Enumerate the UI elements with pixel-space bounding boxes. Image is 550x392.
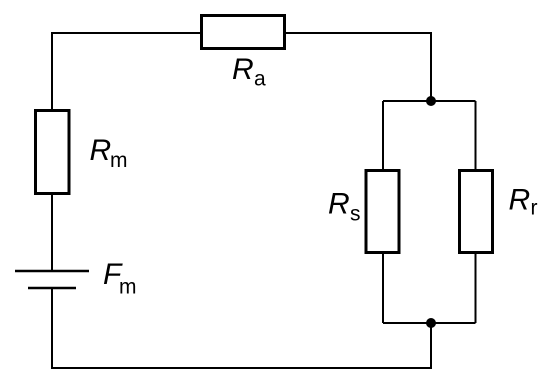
node top junction — [426, 96, 436, 106]
node bottom junction — [426, 318, 436, 328]
wire Rs bottom lead — [382, 253, 384, 323]
svg-text:R: R — [328, 188, 350, 221]
svg-text:a: a — [254, 68, 266, 91]
svg-text:R: R — [90, 134, 112, 167]
svg-text:R: R — [509, 184, 531, 217]
svg-text:m: m — [110, 149, 128, 172]
svg-text:s: s — [350, 203, 361, 226]
wire Rr bottom lead — [475, 253, 477, 323]
wire from battery bottom plate around bottom rail to bottom junction — [52, 288, 431, 368]
resistor Rr — [460, 171, 493, 253]
wire Rs top lead — [382, 101, 384, 170]
resistor Ra — [202, 16, 285, 49]
wire Rr top lead — [475, 101, 477, 170]
battery Fm long plate — [15, 270, 89, 273]
svg-text:R: R — [232, 53, 254, 86]
svg-text:m: m — [119, 276, 137, 299]
resistor Rs — [366, 171, 399, 253]
wire from Rm bottom to battery top plate — [51, 193, 53, 271]
battery Fm short plate — [28, 287, 76, 290]
wire from Rm top up and across to Ra left lead — [52, 33, 201, 110]
wire from bottom junction down to bottom rail — [430, 323, 432, 368]
svg-text:r: r — [531, 197, 538, 220]
resistor Rm — [36, 111, 70, 194]
wire parallel top rail — [383, 100, 476, 102]
wire from Ra right lead to top junction — [285, 33, 431, 101]
wire parallel bottom rail — [383, 322, 476, 324]
